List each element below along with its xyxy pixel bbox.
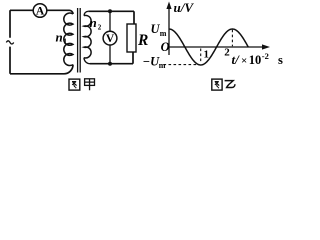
- svg-text:t/: t/: [232, 52, 241, 67]
- svg-text:A: A: [36, 5, 45, 17]
- svg-text:R: R: [137, 32, 148, 49]
- svg-text:×: ×: [241, 55, 247, 67]
- svg-text:u/V: u/V: [174, 0, 195, 15]
- svg-text:−U: −U: [143, 55, 161, 69]
- svg-text:-2: -2: [262, 51, 269, 61]
- svg-text:1: 1: [204, 49, 210, 61]
- svg-text:m: m: [159, 61, 166, 70]
- svg-text:2: 2: [224, 46, 230, 58]
- svg-text:O: O: [161, 40, 170, 54]
- svg-text:m: m: [160, 29, 167, 38]
- svg-text:1: 1: [63, 38, 67, 46]
- svg-text:2: 2: [98, 24, 102, 32]
- svg-text:10: 10: [249, 53, 261, 67]
- svg-text:n: n: [56, 30, 63, 45]
- svg-text:s: s: [278, 53, 283, 67]
- svg-text:n: n: [90, 15, 97, 30]
- svg-text:V: V: [106, 33, 115, 45]
